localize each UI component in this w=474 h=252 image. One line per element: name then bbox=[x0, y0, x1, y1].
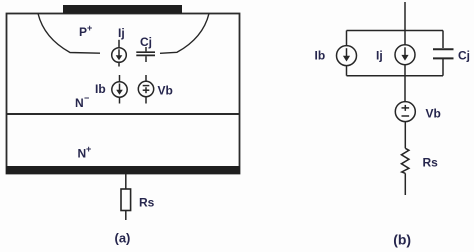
svg-text:Rs: Rs bbox=[139, 195, 155, 209]
svg-text:Vb: Vb bbox=[426, 107, 441, 121]
svg-text:(a): (a) bbox=[115, 231, 131, 246]
svg-text:Ib: Ib bbox=[315, 49, 326, 63]
svg-text:Vb: Vb bbox=[158, 84, 173, 98]
svg-text:Ib: Ib bbox=[95, 82, 106, 96]
svg-text:N: N bbox=[75, 96, 84, 110]
svg-text:Cj: Cj bbox=[458, 49, 470, 63]
svg-text:N: N bbox=[78, 147, 87, 161]
svg-text:Cj: Cj bbox=[140, 35, 152, 49]
svg-text:+: + bbox=[86, 144, 91, 154]
svg-text:Ij: Ij bbox=[376, 49, 383, 63]
svg-text:Ij: Ij bbox=[118, 26, 125, 40]
svg-text:−: − bbox=[84, 93, 89, 103]
svg-text:P: P bbox=[79, 25, 87, 39]
svg-text:Rs: Rs bbox=[423, 156, 439, 170]
svg-text:(b): (b) bbox=[393, 232, 411, 248]
svg-text:+: + bbox=[87, 23, 92, 33]
